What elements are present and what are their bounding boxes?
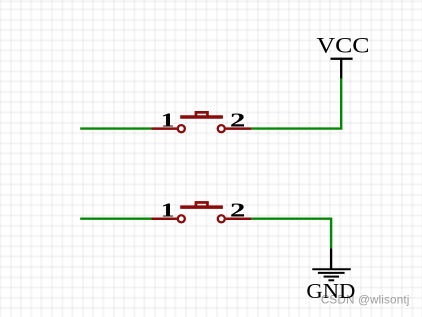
- S2 pin 2 terminal circle: [218, 215, 225, 222]
- wire W2 from S1 pin 2 to VCC riser: [251, 79, 341, 129]
- GND pin stem: [330, 248, 332, 269]
- S1 pin 1 lead: [152, 127, 177, 130]
- power port VCC: [317, 33, 370, 79]
- wire W4 from S2 pin 2 to GND drop: [251, 219, 331, 249]
- S2 pin 2 lead: [226, 217, 252, 220]
- VCC pin stem: [340, 58, 342, 79]
- pushbutton S2: [152, 200, 252, 223]
- S2 pin 1 terminal circle: [178, 215, 185, 222]
- S1 pin 1 terminal circle: [178, 125, 185, 132]
- svg-text:2: 2: [230, 110, 246, 132]
- svg-text:1: 1: [161, 200, 175, 222]
- S1 button cap: [196, 112, 208, 117]
- wire W1 top-left horizontal: [80, 127, 151, 129]
- svg-text:GND: GND: [306, 279, 355, 303]
- S1 pin 2 terminal circle: [218, 125, 225, 132]
- GND bar 3: [324, 276, 339, 278]
- wire W3 bottom-left horizontal: [80, 217, 151, 219]
- power port GND: [306, 248, 355, 303]
- pushbutton S1: [152, 110, 252, 133]
- S2 pin 1 lead: [152, 217, 177, 220]
- S2 button cap: [196, 202, 208, 207]
- svg-text:2: 2: [230, 200, 246, 222]
- S1 actuator bar: [180, 115, 223, 119]
- svg-text:1: 1: [161, 110, 175, 132]
- GND bar 1: [312, 268, 351, 270]
- VCC bar: [331, 58, 353, 60]
- GND bar 4: [328, 279, 334, 281]
- S1 pin 2 lead: [226, 127, 252, 130]
- svg-text:VCC: VCC: [317, 33, 370, 58]
- S2 actuator bar: [180, 205, 223, 209]
- GND bar 2: [318, 272, 345, 274]
